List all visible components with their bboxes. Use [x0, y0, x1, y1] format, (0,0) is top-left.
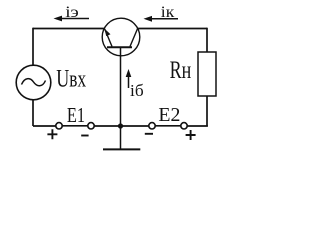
battery E1 left terminal [56, 123, 62, 129]
wire: bottom-left segment (corner to E1 left terminal) [33, 125, 56, 127]
junction node dot [118, 123, 123, 128]
AC source U_vx circle [16, 65, 51, 100]
current arrow i_e head [54, 16, 63, 22]
current arrow i_e shaft [56, 18, 89, 20]
current arrow i_k shaft [146, 18, 178, 20]
svg-text:Uвх: Uвх [56, 65, 86, 93]
wire: right vertical upper (corner to resistor top) [206, 28, 208, 52]
battery E2 left terminal [149, 123, 155, 129]
label E2 plus [186, 130, 196, 140]
battery E1 link wire [62, 125, 88, 127]
transistor VT1 circle [102, 18, 140, 56]
current arrow i_k head [144, 16, 153, 22]
transistor emitter line [105, 29, 112, 47]
current arrow i_b shaft [128, 74, 130, 88]
transistor emitter arrowhead [105, 29, 111, 36]
svg-text:iб: iб [130, 81, 144, 100]
svg-text:iк: iк [161, 3, 175, 21]
label E1 minus [81, 135, 88, 137]
wire: transistor base vertical down to bottom wire [120, 47, 122, 126]
wire: left vertical lower (AC source bottom to bottom-left corner) [32, 100, 34, 126]
wire: bottom segment (junction to E2 left terminal) [121, 125, 149, 127]
wire: bottom segment (E1 to center junction) [94, 125, 120, 127]
AC source sine wave [22, 79, 46, 86]
battery E2 link wire [155, 125, 181, 127]
wire: top-right horizontal from collector to right corner [138, 28, 208, 30]
label E1 plus [47, 129, 57, 139]
transistor base bar [107, 46, 132, 48]
transistor collector line [130, 29, 138, 47]
svg-text:E1: E1 [67, 104, 85, 127]
battery E2 right terminal [181, 123, 187, 129]
resistor R_n body [198, 52, 216, 96]
current arrow i_b head [126, 69, 132, 77]
svg-text:iэ: iэ [65, 3, 79, 21]
wire: bottom-right segment (E2 to right corner) [187, 125, 208, 127]
battery E1 right terminal [88, 123, 94, 129]
wire: top-left horizontal from transistor emitter to left corner [33, 28, 105, 30]
label E2 minus [145, 133, 153, 135]
ground symbol [103, 148, 140, 150]
wire: ground lead from junction [120, 126, 122, 149]
svg-text:E2: E2 [158, 104, 180, 126]
wire: left vertical upper (corner to AC source top) [32, 28, 34, 66]
svg-text:Rн: Rн [170, 56, 192, 84]
wire: right vertical lower (resistor bottom to bottom-right corner) [206, 96, 208, 126]
